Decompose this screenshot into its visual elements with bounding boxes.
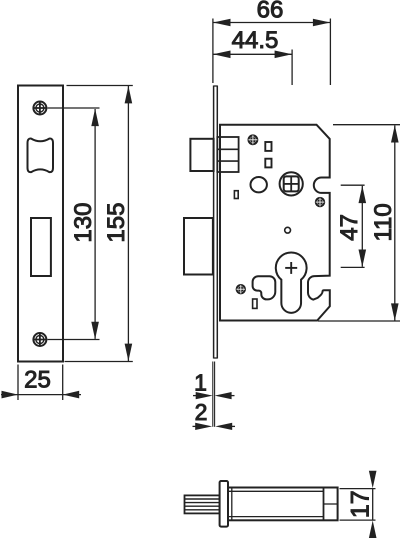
small rect hole C: [234, 191, 238, 199]
screw hole top: [33, 101, 47, 115]
spindle splined shaft: [185, 495, 220, 513]
extension line faceplate top: [67, 85, 133, 87]
dimension 155 arrows: [125, 86, 133, 361]
center pin hole: [285, 227, 291, 233]
svg-text:155: 155: [103, 203, 130, 243]
svg-text:2: 2: [195, 399, 208, 425]
dimension 25 arrows: [2, 391, 80, 399]
small rect hole D: [253, 299, 257, 308]
svg-text:1: 1: [194, 370, 207, 396]
latch cutout: [28, 139, 54, 173]
dimension 130 arrows: [91, 109, 99, 340]
dimension 44.5: [291, 50, 293, 86]
keyhole cam hole: [253, 276, 276, 299]
faceplate strip (edge view): [213, 86, 215, 359]
dimension 1 arrows: [196, 392, 232, 399]
dimension 66: [212, 19, 214, 84]
extension line screw top: [48, 107, 100, 109]
screw A: [248, 134, 259, 145]
dimension 25 line: [1, 394, 81, 396]
dimension 130 line: [94, 109, 96, 339]
cylinder body: [228, 488, 338, 521]
lock body outline: [220, 125, 330, 321]
dimension 155 line: [127, 86, 129, 361]
spindle flange: [220, 481, 228, 527]
deadbolt head: [184, 218, 213, 275]
dimension 17: [340, 488, 376, 490]
follower hub: [280, 172, 303, 195]
svg-text:47: 47: [336, 214, 363, 241]
square hole 2: [265, 159, 271, 168]
svg-text:44.5: 44.5: [232, 27, 279, 54]
dimension 25 extension lines: [17, 365, 19, 401]
euro cylinder hole: [276, 252, 307, 312]
deadbolt cutout: [31, 218, 51, 276]
extension line faceplate bottom: [65, 361, 133, 363]
faceplate (front view): [18, 86, 63, 362]
svg-text:17: 17: [347, 490, 375, 518]
extension line screw bottom: [48, 339, 100, 341]
square hole 1: [265, 142, 271, 151]
svg-text:66: 66: [257, 0, 284, 24]
dimension 47: [341, 184, 365, 186]
screw B: [315, 197, 325, 207]
dimension 110: [333, 124, 400, 126]
svg-text:25: 25: [24, 367, 51, 394]
detail lines 1 and 2: [212, 362, 214, 427]
screw C: [236, 284, 246, 294]
svg-text:130: 130: [70, 203, 97, 243]
svg-text:110: 110: [370, 203, 397, 241]
dimension 2 arrows: [195, 423, 232, 430]
latch head: [190, 139, 213, 171]
oval hole: [251, 177, 267, 192]
latch block (edge view): [217, 137, 238, 172]
screw hole bottom: [33, 333, 47, 347]
